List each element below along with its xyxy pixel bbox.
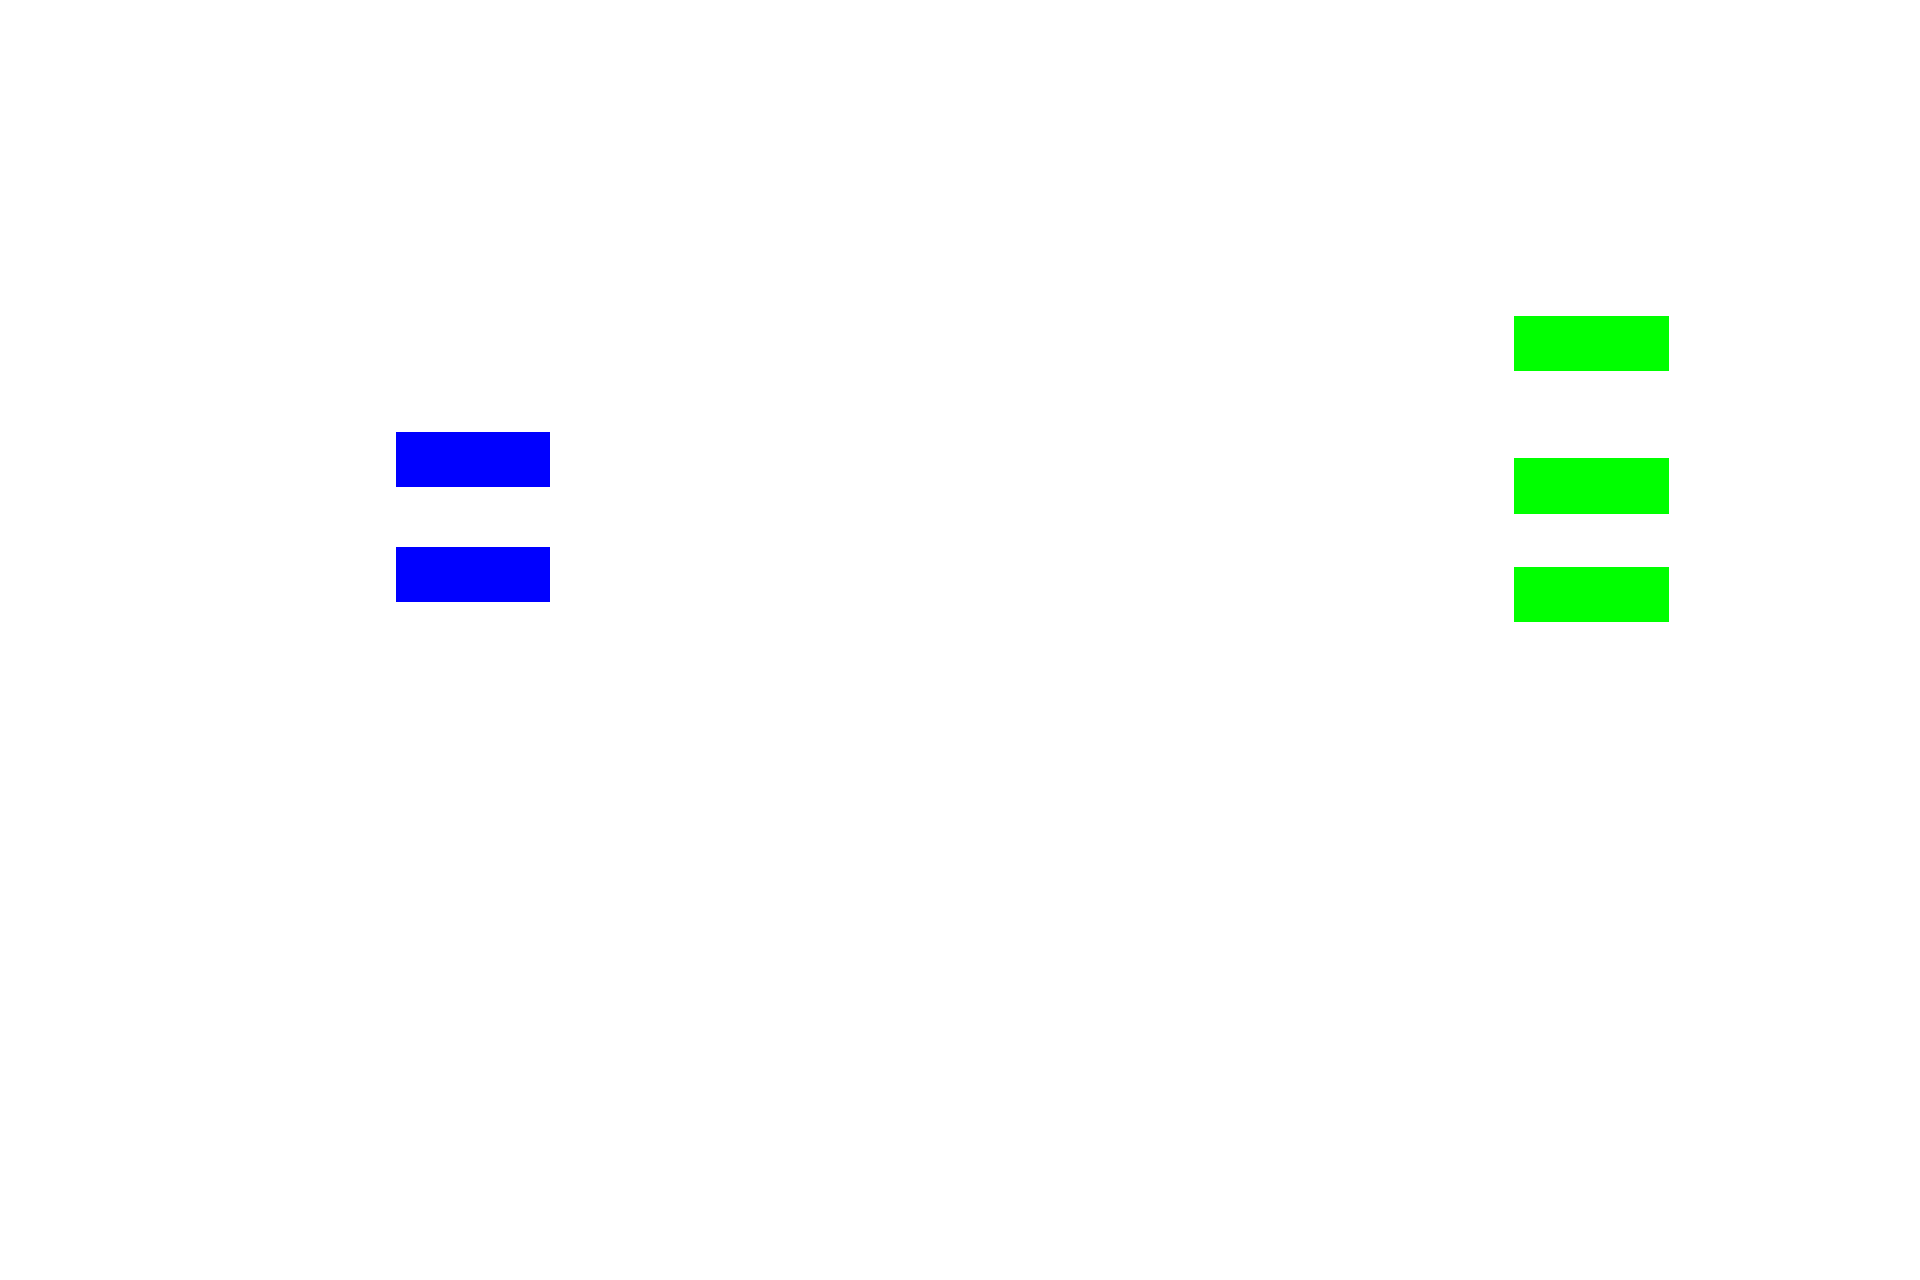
green button 2 xyxy=(1514,458,1669,514)
blue button 2 xyxy=(396,547,550,602)
green button 3 xyxy=(1514,567,1669,622)
green button 1 xyxy=(1514,316,1669,371)
blue button 1 xyxy=(396,432,550,487)
